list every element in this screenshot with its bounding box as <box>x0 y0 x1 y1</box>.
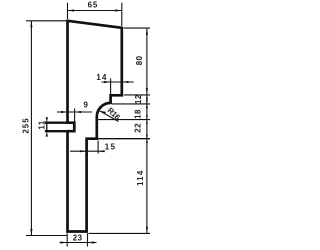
dimension 255 extension bottom <box>26 235 67 237</box>
dimension 255 line <box>30 21 32 236</box>
dimension 15 line <box>70 150 104 152</box>
dimension 15 extension right <box>97 141 99 154</box>
svg-text:9: 9 <box>84 101 89 110</box>
dimension 11 arrow bottom <box>46 131 48 136</box>
svg-text:65: 65 <box>88 0 99 9</box>
dimension 80 extension top <box>124 27 151 29</box>
dimension 14 line <box>102 81 134 83</box>
dimension 114 arrow bottom <box>146 227 148 234</box>
dimension 255 arrow bottom <box>30 229 32 236</box>
dimension 11 arrow top <box>46 117 48 122</box>
svg-text:15: 15 <box>105 142 117 151</box>
svg-text:12: 12 <box>134 94 143 104</box>
dimension 65 extension left <box>67 3 69 19</box>
dimension line column 80-12-18-22-114 <box>146 28 148 233</box>
dimension 23 extension left <box>66 233 68 246</box>
chain arrows at 94.9 <box>146 95 148 99</box>
svg-text:80: 80 <box>135 55 144 65</box>
dimension 80 arrow bottom <box>146 88 148 95</box>
notch top edge / 11 extension top <box>45 122 67 124</box>
dimension 255 extension top <box>26 20 66 22</box>
dimension 80 extension bottom / 12 top <box>124 94 150 96</box>
svg-text:14: 14 <box>96 73 107 82</box>
dimension 12/18 extension <box>112 103 150 105</box>
svg-text:23: 23 <box>73 234 83 243</box>
svg-text:22: 22 <box>133 123 142 133</box>
dimension 11 line <box>46 123 48 132</box>
svg-text:18: 18 <box>134 109 143 119</box>
dimension 18/22 extension <box>98 119 150 121</box>
dimension 14 arrow left <box>104 81 111 83</box>
dimension 114 bottom extension <box>89 232 151 234</box>
svg-text:255: 255 <box>21 117 30 133</box>
profile outline <box>68 21 122 232</box>
dimension 65 arrow left <box>68 9 75 11</box>
dimension 15 arrow right <box>98 150 105 152</box>
dimension 23 line <box>60 242 97 244</box>
dimension 9 arrow left <box>61 111 68 113</box>
dimension 9 line <box>57 111 92 113</box>
dimension 65 arrow right <box>115 9 122 11</box>
notch bottom edge / 11 extension bottom <box>45 130 67 132</box>
dimension 9 extension right <box>74 109 76 124</box>
dimension 15 arrow left <box>80 150 87 152</box>
dimension 65 line <box>68 10 122 12</box>
dimension 80 arrow top <box>146 28 148 35</box>
dimension 65 extension right <box>121 3 123 26</box>
dimension 23 arrow left <box>61 241 68 243</box>
dimension 23 extension right <box>87 233 89 246</box>
dimension 23 arrow right <box>88 241 95 243</box>
chain arrows at 138.7 <box>146 135 148 143</box>
svg-text:11: 11 <box>38 120 47 129</box>
dimension 9 arrow right <box>75 111 82 113</box>
svg-text:114: 114 <box>136 170 145 186</box>
chain arrows at 119.6 <box>146 116 148 124</box>
chain arrows at 103.9 <box>146 100 148 108</box>
dimension 22 bottom / 114 top extension <box>97 138 150 140</box>
dimension 14 arrow right <box>122 81 129 83</box>
dimension 14 extension <box>110 79 112 95</box>
radius R16 arrowhead <box>100 111 106 114</box>
radius R16 leader <box>100 111 119 122</box>
dimension 255 arrow top <box>30 21 32 28</box>
